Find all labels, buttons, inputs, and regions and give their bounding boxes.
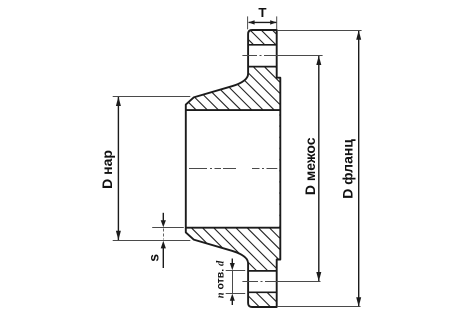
top bolt hole centerline — [242, 55, 322, 57]
D nar dimension line — [117, 97, 119, 240]
body outline — [186, 30, 280, 307]
flange bottom edge extension — [277, 306, 361, 308]
svg-text:D фланц: D фланц — [340, 139, 356, 199]
bottom bolt hole centerline — [242, 281, 320, 283]
top bolt hole edges — [248, 44, 277, 46]
svg-text:n отв. d: n отв. d — [215, 260, 227, 298]
dimension T: dimension line with arrows — [249, 21, 277, 23]
svg-text:T: T — [258, 5, 266, 20]
bore (white) — [185, 110, 279, 228]
n otv d extension lines — [226, 270, 246, 272]
axis centerline — [189, 168, 277, 170]
top bolt hole band (white) — [247, 45, 277, 67]
dimension T: extension lines — [247, 16, 249, 29]
D mezhos dimension line — [318, 56, 320, 281]
bottom bolt hole band (white) — [247, 271, 277, 292]
svg-text:D межос: D межос — [302, 137, 318, 195]
dimension s arrows — [162, 213, 164, 222]
bottom bolt hole edges — [248, 270, 277, 272]
D flanc dimension line — [358, 31, 360, 306]
n otv d dimension arrows — [231, 259, 233, 265]
dimension s: extension line — [152, 227, 184, 229]
flange top edge extension — [277, 30, 362, 32]
svg-text:s: s — [146, 254, 162, 262]
bore top line — [186, 109, 280, 111]
D nar extension lines — [113, 96, 191, 98]
bore bottom line — [186, 227, 280, 229]
svg-text:D нар: D нар — [99, 150, 115, 189]
